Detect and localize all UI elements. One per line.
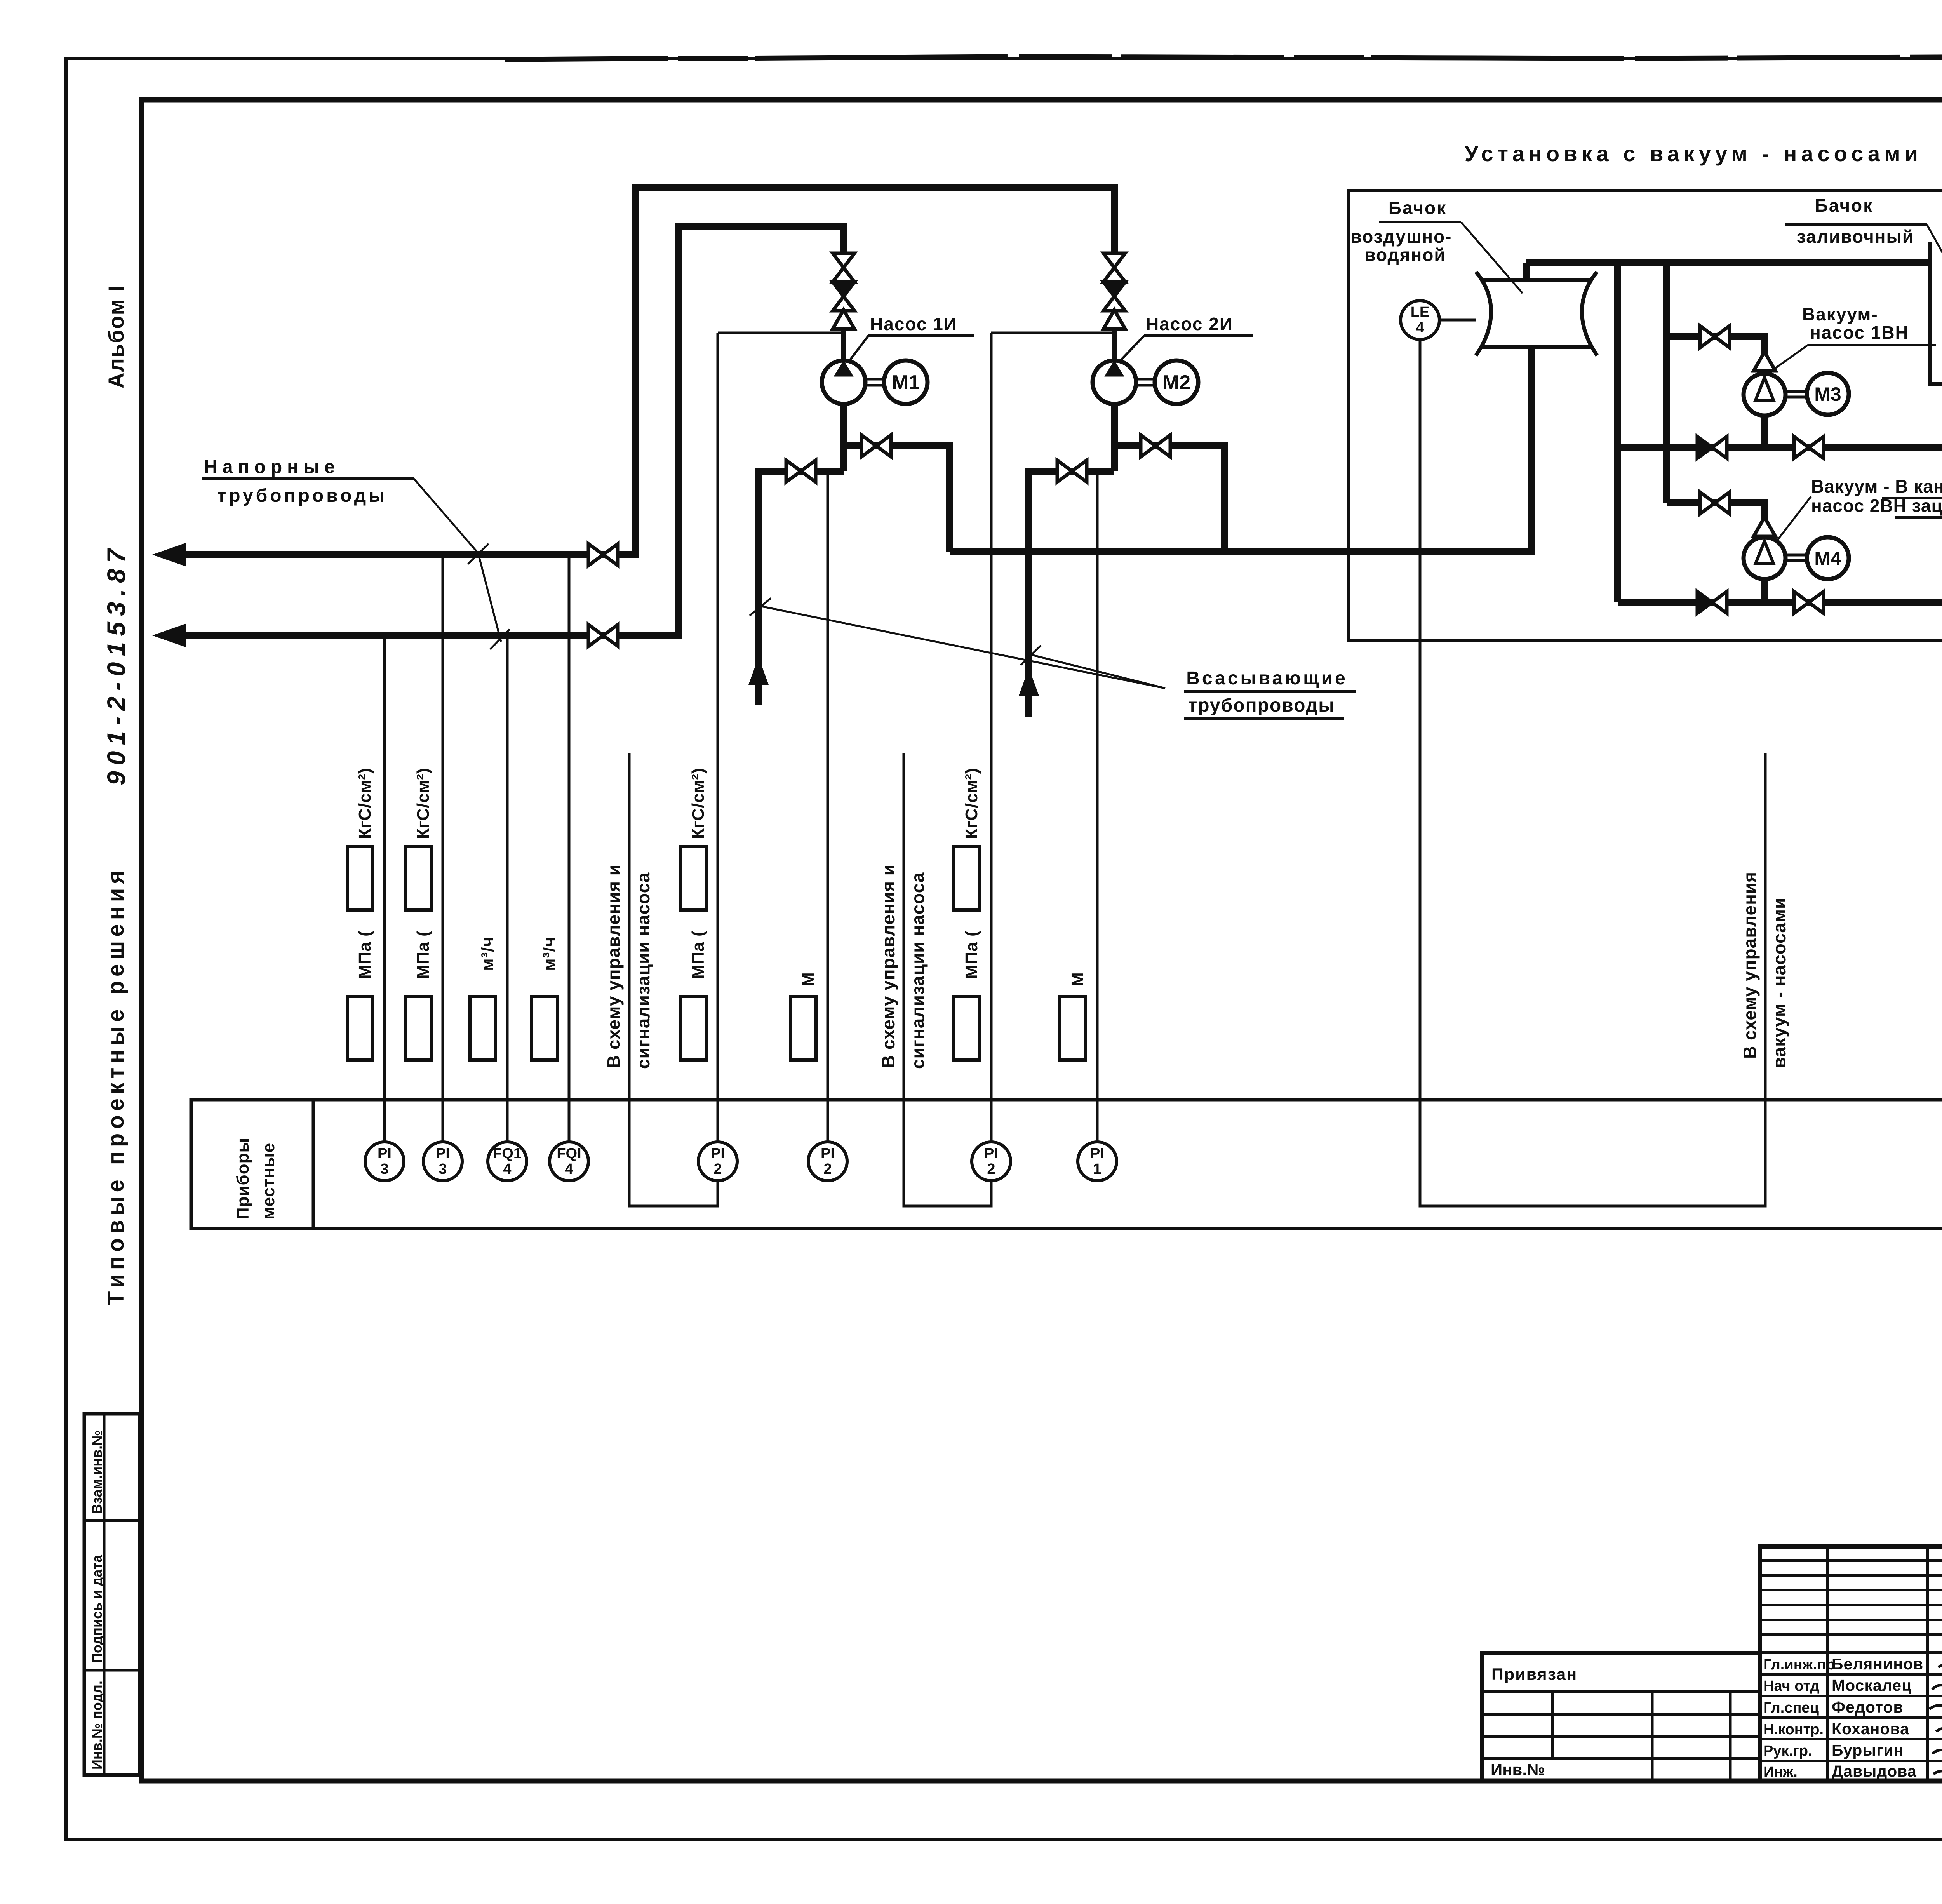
pump 1И — [822, 360, 865, 404]
shaft pump-motor М1 — [865, 378, 884, 381]
shaft 2ВН-М4 — [1785, 554, 1806, 557]
svg-text:Гл.спец: Гл.спец — [1763, 1700, 1819, 1716]
svg-text:Типовые проектные решения: Типовые проектные решения — [103, 867, 129, 1305]
instrument PI-3 #1 — [365, 1142, 404, 1181]
vacuum pump 1ВН — [1744, 374, 1785, 416]
svg-text:сигнализации насоса: сигнализации насоса — [633, 872, 653, 1069]
svg-text:1: 1 — [1093, 1161, 1101, 1177]
vacuum unit enclosure — [1349, 190, 1942, 641]
svg-text:PI: PI — [378, 1145, 392, 1162]
pump 2И discharge-side branch to suction header — [1114, 446, 1224, 552]
svg-text:МПа (: МПа ( — [355, 930, 374, 979]
vacuum pump 2ВН — [1744, 537, 1785, 579]
svg-text:В схему управления и: В схему управления и — [604, 864, 624, 1068]
svg-text:Инж.: Инж. — [1763, 1764, 1798, 1780]
svg-text:Привязан: Привязан — [1491, 1665, 1577, 1684]
signal line pump2 control circuit — [904, 753, 991, 1206]
local instruments strip — [191, 1100, 1942, 1229]
instrument FQ1-4 — [488, 1142, 527, 1181]
svg-text:КгС/см²): КгС/см²) — [355, 768, 374, 839]
svg-text:Альбом I: Альбом I — [104, 285, 128, 388]
svg-text:насос 1ВН: насос 1ВН — [1810, 322, 1909, 343]
svg-text:Нач отд: Нач отд — [1763, 1678, 1820, 1694]
svg-text:М4: М4 — [1814, 548, 1841, 569]
svg-text:Взам.инв.№: Взам.инв.№ — [89, 1430, 105, 1514]
leader to suction riser 2 — [1030, 654, 1165, 688]
instrument PI-3 #2 — [423, 1142, 462, 1181]
arrow pressure pipe 2 — [155, 625, 186, 646]
signature rows — [1760, 1673, 1942, 1676]
svg-text:Насос 2И: Насос 2И — [1146, 314, 1233, 334]
pump 1И suction branch left — [759, 471, 844, 705]
scale box upper — [680, 847, 706, 910]
svg-text:Белянинов: Белянинов — [1832, 1655, 1923, 1673]
branch to vacuum pump 1ВН — [1667, 337, 1765, 354]
scale box lower — [470, 997, 496, 1060]
motor М1 — [884, 360, 927, 404]
vacuum branch header — [1663, 263, 1670, 503]
svg-text:901-2-0153.87: 901-2-0153.87 — [102, 543, 131, 785]
level gauge LE-4 — [1401, 301, 1439, 339]
svg-text:4: 4 — [565, 1161, 573, 1177]
svg-text:PI: PI — [436, 1145, 450, 1162]
svg-text:воздушно-: воздушно- — [1351, 226, 1452, 247]
instrument line FQI-4 — [568, 555, 571, 1142]
svg-text:FQ1: FQ1 — [493, 1145, 522, 1162]
gauge line M (pump1 suction) — [827, 472, 829, 1142]
vacuum manifold — [1618, 444, 1942, 451]
pump 2И — [1093, 360, 1136, 404]
signature grid columns — [1826, 1546, 1829, 1781]
pressure tap line to PI2 — [718, 332, 844, 334]
svg-text:Бурыгин: Бурыгин — [1832, 1741, 1904, 1759]
motor М3 — [1807, 373, 1849, 415]
riser pipe1 to top header — [635, 188, 1118, 558]
suction header to air-water tank — [950, 348, 1532, 552]
instrument PI-2 #2 — [808, 1142, 847, 1181]
instrument line PI3 #2 — [442, 555, 444, 1142]
svg-text:LE: LE — [1411, 304, 1430, 320]
scale box upper — [954, 847, 980, 910]
scale box lower — [405, 997, 431, 1060]
svg-text:4: 4 — [1416, 320, 1424, 336]
title block outer — [1760, 1546, 1942, 1781]
pump 2ВН to bottom loop — [1761, 579, 1768, 602]
pump 2И suction line — [1111, 404, 1118, 471]
svg-text:Коханова: Коханова — [1832, 1720, 1909, 1738]
check valve vacuum pump 1ВН — [1754, 352, 1775, 371]
scale box lower — [954, 997, 980, 1060]
svg-text:PI: PI — [711, 1145, 725, 1162]
margin table box — [84, 1414, 140, 1775]
vacuum bottom loop — [1618, 599, 1942, 606]
signatures (handwritten) — [1938, 1661, 1942, 1667]
svg-text:Насос 1И: Насос 1И — [870, 314, 957, 334]
svg-text:Установка с вакуум - насосам: Установка с вакуум - насосами — [1465, 141, 1922, 166]
svg-text:Гл.инж.пр: Гл.инж.пр — [1763, 1657, 1835, 1673]
scale box lower — [532, 997, 557, 1060]
gauge line M (pump2 suction) — [1096, 472, 1099, 1142]
svg-text:МПа (: МПа ( — [689, 930, 708, 979]
svg-text:м³/ч: м³/ч — [478, 936, 497, 971]
svg-text:Рук.гр.: Рук.гр. — [1763, 1743, 1812, 1759]
svg-text:м³/ч: м³/ч — [540, 936, 559, 971]
vacuum top pipe — [1526, 259, 1930, 266]
motor М4 — [1807, 537, 1849, 579]
svg-text:В схему управления и: В схему управления и — [878, 864, 898, 1068]
svg-text:Давыдова: Давыдова — [1832, 1762, 1917, 1780]
scan artifact: darker top border band — [505, 55, 1942, 59]
suction riser arrow 1 — [749, 659, 768, 684]
riser from air-water tank top — [1523, 263, 1530, 281]
signal line LE4 to vacuum pumps control — [1420, 339, 1765, 1206]
pump 1И discharge-side branch to suction header — [844, 446, 950, 552]
suction riser arrow 2 — [1020, 670, 1038, 695]
instrument PI-2 #3 — [972, 1142, 1011, 1181]
shaft pump-motor М2 — [1136, 378, 1155, 381]
svg-text:водяной: водяной — [1364, 245, 1446, 265]
svg-text:КгС/см²): КгС/см²) — [414, 768, 433, 839]
pressure tap line to PI2 — [991, 332, 1114, 334]
svg-text:Приборы: Приборы — [233, 1138, 252, 1220]
svg-text:Подпись и дата: Подпись и дата — [89, 1554, 105, 1663]
svg-text:КгС/см²): КгС/см²) — [689, 768, 708, 839]
valve on pressure pipe 1 — [588, 544, 603, 566]
svg-text:КгС/см²): КгС/см²) — [962, 768, 981, 839]
scale box lower — [790, 997, 816, 1060]
pressure pipe 2 (напорный трубопровод 2) — [167, 632, 679, 639]
svg-text:местные: местные — [259, 1143, 278, 1220]
svg-text:сигнализации насоса: сигнализации насоса — [908, 872, 928, 1069]
instrument FQI-4 — [550, 1142, 588, 1181]
svg-text:МПа (: МПа ( — [414, 930, 433, 979]
svg-text:МПа (: МПа ( — [962, 930, 981, 979]
svg-text:2: 2 — [987, 1161, 995, 1177]
svg-text:Москалец: Москалец — [1832, 1676, 1912, 1694]
instrument line PI3 #1 — [383, 635, 386, 1142]
shaft 1ВН-М3 — [1785, 390, 1806, 393]
svg-text:3: 3 — [380, 1161, 388, 1177]
svg-text:М3: М3 — [1814, 383, 1841, 405]
valve on pressure pipe 2 — [588, 625, 603, 646]
svg-text:Инв.№ подл.: Инв.№ подл. — [89, 1681, 105, 1770]
svg-text:2: 2 — [713, 1161, 722, 1177]
instrument PI-1 — [1078, 1142, 1117, 1181]
check valve above pump М1 — [833, 310, 854, 329]
svg-text:В схему управления: В схему управления — [1740, 872, 1760, 1059]
leader to suction riser 1 — [759, 606, 1165, 688]
scale box upper — [347, 847, 373, 910]
riser pipe2 to second header — [679, 226, 847, 639]
check valve above pump М2 — [1103, 310, 1125, 329]
svg-text:4: 4 — [503, 1161, 511, 1177]
branch to vacuum pump 2ВН — [1667, 503, 1765, 520]
check valve vacuum pump 2ВН — [1754, 517, 1775, 536]
svg-text:Всасывающие: Всасывающие — [1186, 668, 1348, 689]
svg-text:М: М — [799, 972, 818, 987]
svg-text:PI: PI — [984, 1145, 998, 1162]
valve stack above pump М2 — [1111, 184, 1118, 253]
arrow pressure pipe 1 — [155, 544, 186, 566]
scale box lower — [680, 997, 706, 1060]
pump 2И suction branch left — [1029, 471, 1114, 717]
scale box lower — [1060, 997, 1086, 1060]
svg-text:Н.контр.: Н.контр. — [1763, 1721, 1824, 1738]
svg-text:М: М — [1068, 972, 1087, 987]
svg-text:вакуум - насосами: вакуум - насосами — [1769, 898, 1789, 1068]
svg-text:Инв.№: Инв.№ — [1491, 1760, 1545, 1779]
svg-text:Вакуум - В канали-: Вакуум - В канали- — [1811, 476, 1942, 496]
svg-text:трубопроводы: трубопроводы — [217, 486, 388, 506]
svg-text:Бачок: Бачок — [1389, 198, 1447, 218]
svg-text:заливочный: заливочный — [1797, 226, 1914, 247]
svg-text:Вакуум-: Вакуум- — [1802, 304, 1878, 324]
signal line pump1 control circuit — [629, 753, 718, 1206]
pump 1И suction line — [840, 404, 847, 471]
svg-text:3: 3 — [439, 1161, 447, 1177]
svg-text:PI: PI — [821, 1145, 835, 1162]
svg-text:Напорные: Напорные — [204, 457, 340, 477]
valve stack above pump М1 — [840, 223, 847, 253]
svg-text:Бачок: Бачок — [1815, 195, 1873, 216]
leader to pipes — [414, 479, 501, 642]
svg-text:FQI: FQI — [557, 1145, 581, 1162]
svg-text:PI: PI — [1090, 1145, 1104, 1162]
привязка table — [1482, 1653, 1760, 1781]
svg-text:Федотов: Федотов — [1832, 1698, 1904, 1716]
instrument line FQ1-4 — [506, 635, 509, 1142]
motor М2 — [1155, 360, 1198, 404]
pump 1ВН to manifold — [1761, 416, 1768, 447]
instrument PI-2 #1 — [698, 1142, 737, 1181]
svg-text:2: 2 — [823, 1161, 832, 1177]
scale box lower — [347, 997, 373, 1060]
vacuum loop left drop — [1614, 263, 1621, 602]
scale box upper — [405, 847, 431, 910]
signature grid thin rows — [1760, 1559, 1942, 1562]
pressure pipe 1 (напорный трубопровод 1) — [167, 551, 635, 558]
svg-text:трубопроводы: трубопроводы — [1188, 695, 1335, 716]
filling tank (бачок заливочный) — [1930, 242, 1942, 384]
svg-text:М1: М1 — [892, 371, 920, 394]
svg-text:М2: М2 — [1162, 371, 1190, 394]
air-water tank (бачок воздушно-водяной) — [1476, 272, 1597, 355]
